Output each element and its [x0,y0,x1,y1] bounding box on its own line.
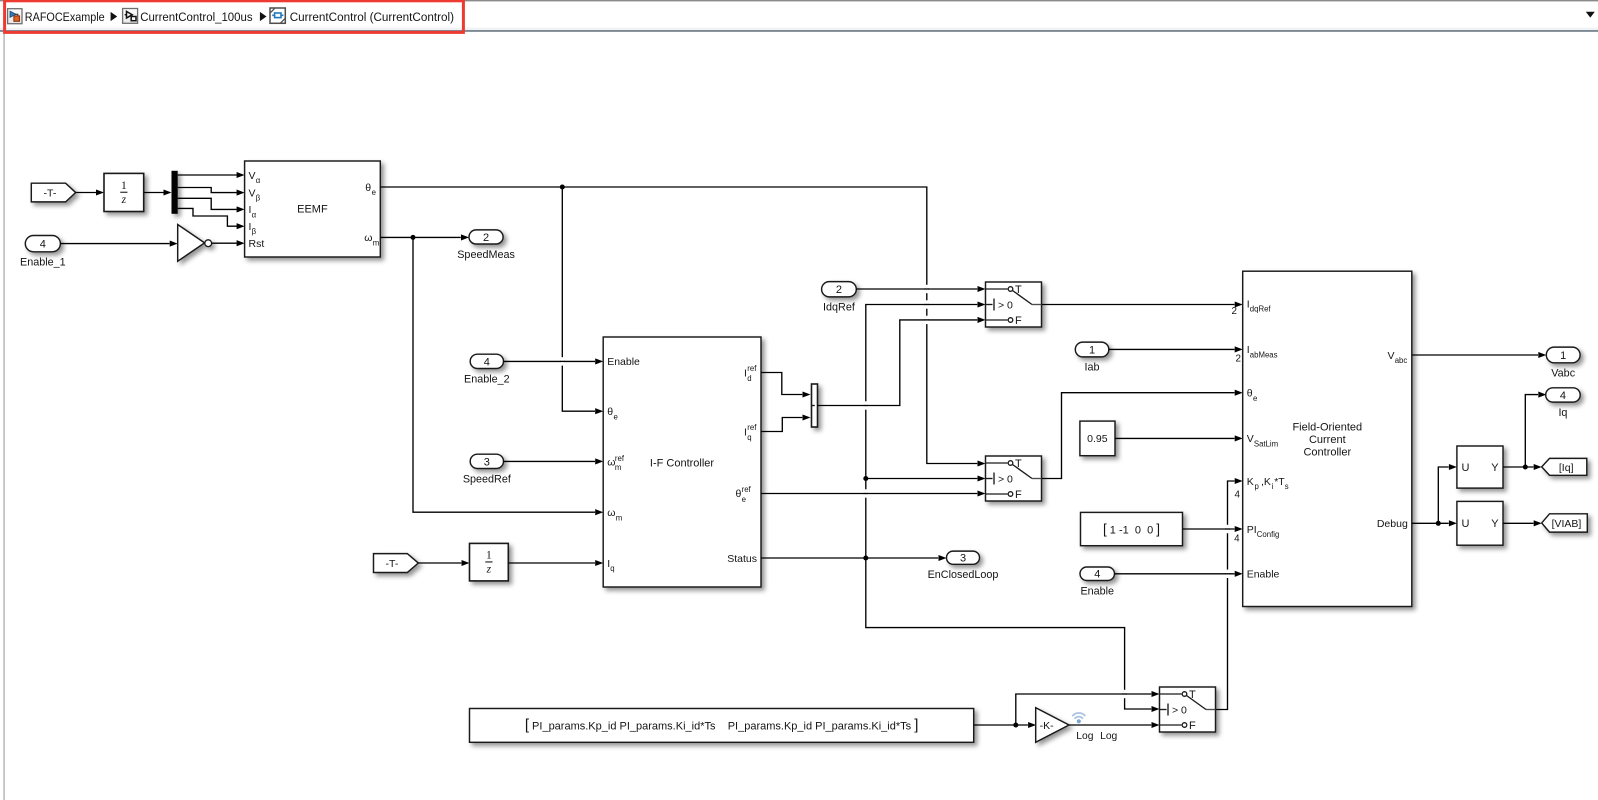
constant block 0.95 [1080,421,1115,456]
svg-text:Iab: Iab [1085,362,1100,374]
svg-text:4: 4 [1235,490,1241,501]
unit delay 1/z (bottom) [470,543,509,581]
svg-text:θ: θ [365,182,371,194]
mux block [812,384,818,427]
outport 1 Vabc [1546,347,1580,363]
svg-text:abMeas: abMeas [1250,351,1278,360]
wire NOT to Rst [212,242,237,244]
wire Status riser to switch1/switch2 control [866,305,978,559]
svg-text:2: 2 [483,232,489,244]
svg-text:z: z [121,194,127,206]
svg-text:e: e [614,412,618,421]
wire selector2 out to [VIAB] tag [1503,522,1534,524]
wire I-F Status to EnClosedLoop (junction) [761,557,938,559]
svg-text:abc: abc [1395,356,1408,365]
wire Iab to FOC IabMeas [1109,348,1235,350]
svg-text:ω: ω [364,232,372,244]
svg-text:Status: Status [727,553,757,565]
wire switch2 output to FOC theta_e [1042,393,1235,479]
NOT gate (logical operator) [178,225,212,262]
selector block U-Y (bottom) [1457,501,1503,545]
svg-text:V: V [1388,350,1395,362]
goto tag [Iq] [1542,458,1587,475]
gain block -K- [1036,708,1069,743]
wire Status down-branch to switch3 control [866,558,1152,709]
svg-text:2: 2 [1232,306,1237,317]
svg-text:CurrentControl (CurrentControl: CurrentControl (CurrentControl) [290,10,454,24]
wire EEMF omega_m to SpeedMeas (with junction) [380,236,461,238]
svg-text:Y: Y [1491,462,1499,474]
svg-text:Rst: Rst [249,238,265,250]
svg-text:Enable: Enable [607,356,640,368]
wire 0.95 to FOC VSatLim [1115,437,1235,439]
svg-text:3: 3 [960,553,966,565]
svg-text:s: s [1285,482,1289,491]
wire mux output to switch1 F [818,320,978,406]
wire selector1 out to [Iq] tag (junction) [1503,466,1534,468]
svg-text:,K: ,K [1261,476,1271,488]
svg-text:1: 1 [121,180,127,192]
svg-text:Log: Log [1076,731,1093,742]
svg-text:*T: *T [1274,476,1285,488]
dropdown arrow [1586,12,1595,18]
svg-text:IdqRef: IdqRef [823,302,856,314]
svg-text:θ: θ [607,406,613,418]
svg-text:ω: ω [607,507,615,519]
wire Enable_2 to I-F Enable [504,360,596,362]
svg-text:SatLim: SatLim [1254,440,1278,449]
subsystem block I-F Controller [603,337,761,587]
logging wifi badge [1073,713,1085,718]
wire I-F Iq_ref to mux [761,418,802,432]
svg-text:q: q [610,564,614,573]
svg-text:p: p [1255,482,1260,491]
svg-text:m: m [615,463,622,472]
svg-text:U: U [1462,462,1470,474]
selector block U-Y (top) [1457,446,1503,488]
wire -T- to unit delay 2 [418,562,461,564]
svg-text:V: V [1247,433,1254,445]
svg-text:4: 4 [1234,533,1240,544]
wire gain to switch3 F [1069,724,1151,726]
svg-text:θ: θ [1247,388,1253,400]
switch block 3 [1160,687,1216,732]
svg-text:Enable: Enable [1080,585,1114,597]
svg-text:e: e [1253,394,1257,403]
constant block [1 -1 0 0] [1081,512,1183,545]
svg-text:[VIAB]: [VIAB] [1552,518,1582,530]
svg-text:CurrentControl_100us: CurrentControl_100us [140,10,252,24]
svg-text:Enable: Enable [1247,569,1280,581]
svg-text:K: K [1247,476,1254,488]
svg-text:Config: Config [1257,530,1280,539]
svg-text:-K-: -K- [1040,720,1055,732]
svg-text:α: α [252,211,257,220]
svg-text:0.95: 0.95 [1087,433,1108,445]
svg-text:4: 4 [1560,390,1566,402]
subsystem block Field-Oriented Current Controller [1243,271,1412,606]
svg-text:RAFOCExample: RAFOCExample [25,10,105,24]
wire constant to gain (junction) [974,724,1028,726]
model badge icon RAFOCExample [8,9,22,24]
svg-text:ref: ref [747,423,757,432]
svg-text:F: F [1015,489,1022,501]
wire demux to V_beta [178,188,237,193]
svg-text:> 0: > 0 [998,474,1013,486]
svg-text:4: 4 [40,239,46,251]
subsystem block EEMF [245,161,381,257]
svg-text:m: m [373,238,380,247]
svg-text:Enable_2: Enable_2 [464,373,510,385]
svg-text:EnClosedLoop: EnClosedLoop [928,569,999,581]
left canvas edge line [3,32,4,800]
goto tag [VIAB] [1542,514,1588,532]
wire unit delay 2 to I-F Iq [508,562,595,564]
svg-text:1: 1 [1089,344,1095,356]
outport 4 Iq [1546,388,1581,402]
svg-text:SpeedMeas: SpeedMeas [457,249,515,261]
wire demux to I_beta [178,208,237,226]
inport 2 IdqRef [822,282,857,297]
svg-text:[Iq]: [Iq] [1559,462,1574,474]
switch block 1 [986,282,1042,327]
breadcrumb bar background [0,0,1598,32]
wire Enable_1 to NOT gate [60,243,169,245]
svg-text:dqRef: dqRef [1250,305,1272,314]
svg-text:U: U [1462,518,1470,530]
subsystem badge icon CurrentControl_100us [123,9,138,24]
switch block 2 [986,456,1042,501]
svg-text:-T-: -T- [44,187,57,199]
svg-text:Iq: Iq [1558,407,1567,419]
from tag -T- (bottom) [374,554,419,573]
subsystem block icon CurrentControl [270,8,285,23]
svg-text:EEMF: EEMF [297,203,328,215]
svg-text:β: β [256,194,261,203]
svg-text:α: α [256,176,261,185]
unit delay 1/z (top) [104,173,144,211]
from tag -T- (top) [31,183,75,202]
wire switch3 output to FOC K input [1216,481,1235,710]
svg-text:2: 2 [836,284,842,296]
svg-text:θ: θ [736,488,742,500]
svg-text:1: 1 [1560,350,1566,362]
svg-text:> 0: > 0 [1172,705,1187,717]
wire SpeedRef to I-F omega_m_ref [504,460,596,462]
svg-text:e: e [372,188,376,197]
svg-text:PI: PI [1247,524,1257,536]
svg-text:4: 4 [484,356,490,368]
inport 1 Iab [1075,342,1109,357]
wire switch1 output to FOC IdqRef [1042,304,1235,306]
wire demux to V_alpha [178,174,237,176]
wire omega_m branch to I-F controller [413,237,595,512]
svg-text:Enable_1: Enable_1 [20,257,66,269]
outport 2 SpeedMeas [469,230,503,244]
svg-text:Vabc: Vabc [1551,368,1575,380]
inport 4 Enable_1 [25,236,60,252]
svg-text:2: 2 [1236,354,1241,365]
wire -T- to unit delay [76,192,96,194]
wire I-F theta_e_ref to switch2 F [761,493,977,495]
svg-text:ref: ref [615,454,625,463]
demux bar [172,171,178,214]
svg-text:4: 4 [1094,569,1100,581]
svg-text:1: 1 [486,550,492,562]
svg-text:[ 1 -1 0 0 ]: [ 1 -1 0 0 ] [1103,522,1160,537]
svg-text:Field-Oriented: Field-Oriented [1292,422,1362,434]
outport 3 EnClosedLoop [947,551,980,565]
svg-text:> 0: > 0 [998,300,1013,312]
wire demux to I_alpha [178,198,237,209]
svg-text:Current: Current [1309,434,1346,446]
inport 4 Enable [1080,567,1115,581]
svg-text:β: β [252,227,257,236]
svg-text:q: q [747,433,751,442]
wire EEMF theta_e to switch2 T (with junction) [380,187,977,464]
svg-text:Debug: Debug [1377,518,1408,530]
breadcrumb separator 1 [111,12,118,21]
svg-text:I-F Controller: I-F Controller [650,458,715,470]
inport 3 SpeedRef [470,454,503,468]
svg-text:e: e [742,495,746,504]
svg-text:Y: Y [1491,518,1499,530]
wire IdqRef to switch1 T [856,288,977,290]
wire unit delay to demux [144,192,164,194]
svg-text:ref: ref [742,485,752,494]
svg-text:V: V [249,187,256,199]
svg-text:Controller: Controller [1303,447,1351,459]
svg-text:F: F [1015,315,1022,327]
svg-text:d: d [747,374,751,383]
red annotation rectangle [5,1,464,33]
svg-text:V: V [249,170,256,182]
breadcrumb separator 2 [260,12,267,21]
wire FOC Vabc to outport [1412,354,1538,356]
wire I-F Id_ref to mux [761,373,802,395]
svg-text:m: m [616,513,623,522]
svg-text:-T-: -T- [385,558,398,570]
svg-text:ref: ref [747,364,757,373]
wire constant branch to switch3 T [1016,694,1152,725]
wire FOC Debug to selectors (junction) [1412,522,1449,524]
svg-text:SpeedRef: SpeedRef [463,473,512,485]
wire [1 -1 0 0] to FOC PI_Config [1183,528,1235,530]
svg-text:F: F [1189,720,1196,732]
inport 4 Enable_2 [470,354,503,368]
wire crossing gaps [561,357,564,365]
constant block PI params vector [470,709,974,743]
wire Enable to FOC Enable [1115,573,1235,575]
svg-text:3: 3 [484,456,490,468]
wire theta_e branch to I-F controller [562,187,595,411]
svg-text:z: z [486,563,492,575]
svg-text:Log: Log [1100,731,1117,742]
